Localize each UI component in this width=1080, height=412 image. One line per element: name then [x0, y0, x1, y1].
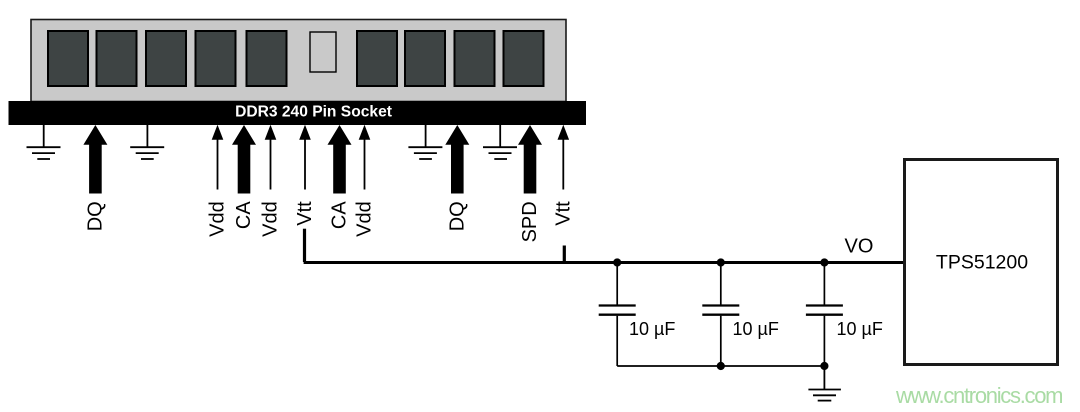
- wire bottom ground rail: [617, 365, 824, 367]
- svg-text:CA: CA: [233, 201, 255, 229]
- DRAM chip 1: [48, 31, 88, 86]
- arrow Vdd 2: [265, 125, 277, 190]
- DRAM chip 6: [357, 31, 397, 86]
- junction node top 3: [820, 258, 828, 266]
- wire main horizontal VO rail: [304, 261, 903, 264]
- ground G1: [27, 125, 61, 159]
- DRAM chip 2: [97, 31, 137, 86]
- svg-text:DQ: DQ: [84, 201, 106, 231]
- arrow CA (right): [328, 125, 352, 194]
- svg-text:CA: CA: [329, 201, 351, 229]
- junction node bottom 2: [820, 362, 828, 370]
- junction node bottom 1: [717, 362, 725, 370]
- DRAM chip 4: [196, 31, 236, 86]
- svg-text:VO: VO: [845, 235, 874, 257]
- svg-text:Vdd: Vdd: [207, 201, 229, 237]
- svg-text:10 µF: 10 µF: [629, 319, 675, 339]
- svg-text:DQ: DQ: [446, 201, 468, 231]
- svg-text:SPD: SPD: [519, 201, 541, 242]
- capacitor C2 10uF: [702, 263, 739, 367]
- DIMM module body: [31, 20, 566, 102]
- junction node top 2: [717, 258, 725, 266]
- arrow Vtt (left): [299, 125, 311, 190]
- svg-text:Vdd: Vdd: [260, 201, 282, 237]
- wire Vtt left down-drop: [303, 229, 306, 262]
- capacitor C1 10uF: [599, 263, 636, 367]
- DRAM chip 8: [455, 31, 495, 86]
- svg-text:www.cntronics.com: www.cntronics.com: [895, 383, 1062, 408]
- ground G2: [130, 125, 164, 159]
- arrow DQ (right): [445, 125, 469, 194]
- DRAM chip 7: [405, 31, 445, 86]
- DRAM chip 9: [504, 31, 544, 86]
- arrow SPD: [518, 125, 542, 194]
- junction node top 1: [613, 258, 621, 266]
- svg-text:Vtt: Vtt: [294, 201, 316, 226]
- ground G5 (bottom): [808, 366, 841, 401]
- capacitor C3 10uF: [806, 263, 843, 367]
- svg-text:TPS51200: TPS51200: [936, 252, 1028, 274]
- arrow Vdd 3: [359, 125, 371, 190]
- SPD EEPROM small chip: [310, 32, 336, 72]
- arrow Vtt (right): [558, 125, 570, 190]
- arrow Vdd 1: [212, 125, 224, 190]
- arrow CA (left): [232, 125, 256, 194]
- DRAM chip 5: [247, 31, 287, 86]
- DDR3 240 Pin Socket bar: [9, 101, 587, 125]
- IC U1 TPS51200: [905, 160, 1058, 365]
- wire Vtt right stub: [563, 246, 566, 263]
- arrow DQ (left): [83, 125, 107, 194]
- svg-text:10 µF: 10 µF: [837, 319, 883, 339]
- svg-text:Vtt: Vtt: [552, 201, 574, 226]
- svg-text:10 µF: 10 µF: [733, 319, 779, 339]
- DRAM chip 3: [146, 31, 186, 86]
- svg-text:DDR3 240 Pin Socket: DDR3 240 Pin Socket: [235, 103, 392, 120]
- svg-text:Vdd: Vdd: [354, 201, 376, 237]
- ground G4: [483, 125, 517, 159]
- ground G3: [408, 125, 442, 159]
